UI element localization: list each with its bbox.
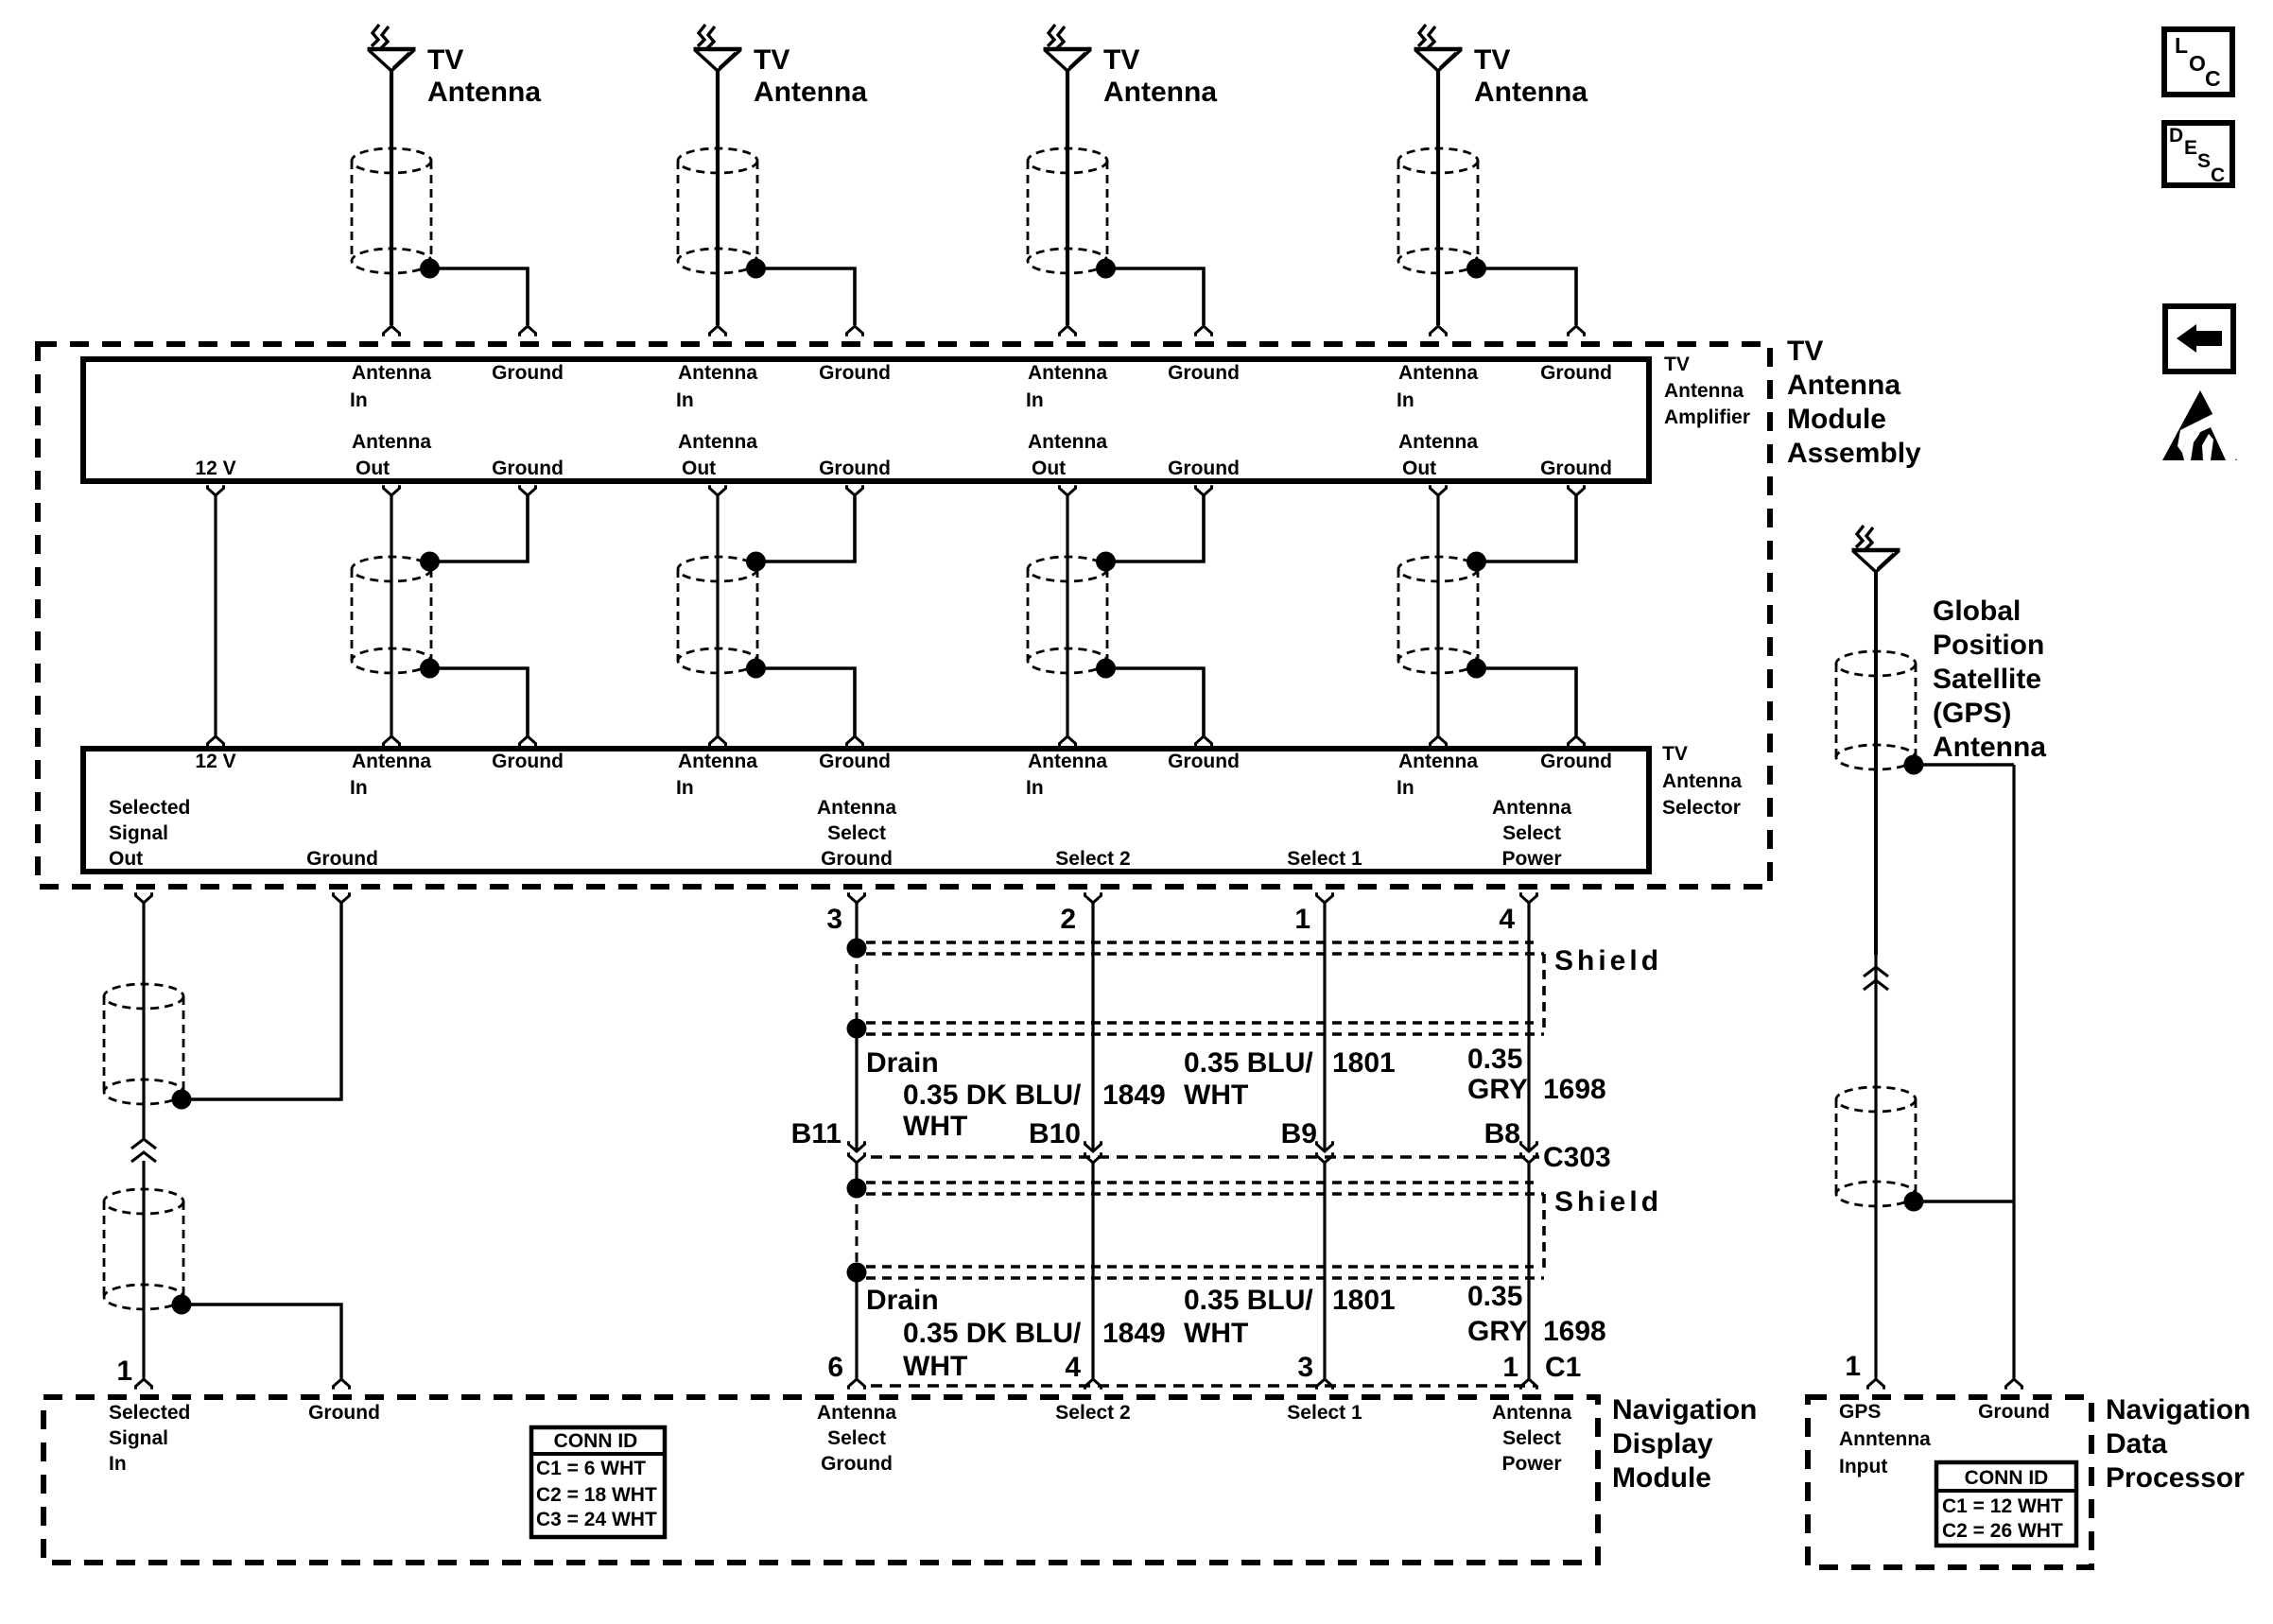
svg-text:TV: TV (427, 44, 463, 76)
svg-text:In: In (109, 1453, 127, 1475)
svg-text:Ground: Ground (819, 458, 891, 479)
svg-text:Antenna: Antenna (1474, 77, 1588, 108)
wire: signal through shield 1 (142, 983, 145, 1138)
svg-text:Antenna: Antenna (678, 362, 757, 384)
GPS shield drain wire to ground (1914, 763, 2014, 767)
12V supply wire (214, 495, 217, 736)
svg-text:Antenna: Antenna (352, 431, 431, 453)
svg-text:Antenna: Antenna (1398, 362, 1478, 384)
svg-text:Ground: Ground (819, 751, 891, 772)
svg-text:Module: Module (1787, 404, 1886, 435)
antenna A1 coax shield (352, 148, 431, 173)
wire: ground to module (182, 1304, 341, 1378)
svg-text:Out: Out (682, 458, 716, 479)
svg-text:Select 2: Select 2 (1055, 1402, 1130, 1424)
back-arrow legend box (2165, 306, 2233, 371)
antenna A2 coax shield (678, 148, 757, 173)
svg-text:0.35: 0.35 (1467, 1281, 1522, 1312)
svg-text:1: 1 (1502, 1352, 1518, 1383)
svg-text:Antenna: Antenna (1028, 362, 1107, 384)
svg-text:B11: B11 (791, 1118, 842, 1149)
coax ch2 shield drain junction lower (746, 659, 766, 679)
svg-text:Select: Select (1502, 822, 1561, 844)
svg-text:2: 2 (1060, 904, 1076, 935)
svg-text:GRY: GRY (1467, 1316, 1528, 1347)
wire: Selected Signal Out upper (142, 903, 145, 983)
coax ch2 shield drain junction upper (746, 552, 766, 572)
svg-text:In: In (676, 777, 694, 799)
coax ch2 ground stub lower (756, 668, 856, 736)
svg-text:WHT: WHT (903, 1351, 967, 1382)
svg-text:Antenna: Antenna (1398, 431, 1478, 453)
GPS coax shield 1 (1836, 651, 1916, 676)
svg-text:Select 1: Select 1 (1287, 848, 1362, 870)
svg-text:Global: Global (1933, 596, 2021, 627)
svg-text:Antenna: Antenna (678, 431, 757, 453)
svg-text:Antenna: Antenna (1492, 1402, 1571, 1424)
svg-text:Antenna: Antenna (1028, 751, 1107, 772)
svg-text:Selected: Selected (109, 797, 190, 819)
svg-text:C303: C303 (1543, 1142, 1611, 1173)
svg-text:WHT: WHT (1184, 1318, 1248, 1349)
TV Antenna Selector box U2 (83, 749, 1649, 872)
Navigation Data Processor boundary (1808, 1397, 2091, 1567)
svg-text:12 V: 12 V (195, 751, 235, 772)
svg-text:Ground: Ground (306, 848, 378, 870)
svg-text:B10: B10 (1029, 1118, 1081, 1149)
coax ch2 shield (678, 557, 757, 581)
svg-text:Antenna: Antenna (352, 751, 431, 772)
svg-text:Data: Data (2106, 1428, 2167, 1460)
antenna A3 coax shield (1028, 148, 1107, 173)
DESC legend box (2164, 123, 2232, 185)
svg-text:3: 3 (826, 904, 842, 935)
svg-text:Assembly: Assembly (1787, 438, 1921, 469)
shield tube upper (dashed) (866, 941, 1534, 944)
TV Antenna Amplifier box U1 (83, 359, 1649, 481)
svg-text:Antenna: Antenna (678, 751, 757, 772)
svg-text:In: In (1397, 389, 1414, 411)
svg-text:L: L (2175, 33, 2188, 58)
ESD warning symbol (2162, 390, 2237, 460)
CONN ID table (module) (531, 1427, 665, 1537)
svg-text:Antenna: Antenna (754, 77, 867, 108)
coax ch1 ground stub lower (430, 668, 529, 736)
svg-text:Amplifier: Amplifier (1664, 406, 1750, 428)
signal coax shield 2 (104, 1189, 183, 1214)
svg-text:In: In (676, 389, 694, 411)
svg-text:In: In (1026, 777, 1044, 799)
svg-text:Anntenna: Anntenna (1839, 1428, 1931, 1450)
svg-text:C: C (2211, 164, 2225, 186)
svg-text:Select: Select (1502, 1427, 1561, 1449)
svg-text:Signal: Signal (109, 1427, 168, 1449)
svg-text:Ground: Ground (1168, 362, 1240, 384)
svg-text:Module: Module (1612, 1462, 1711, 1494)
antenna A2 mast wire (716, 71, 720, 325)
svg-text:Ground: Ground (492, 458, 564, 479)
svg-text:Antenna: Antenna (1398, 751, 1478, 772)
svg-text:Antenna: Antenna (1662, 770, 1742, 792)
svg-text:GRY: GRY (1467, 1074, 1528, 1105)
svg-text:0.35: 0.35 (1467, 1044, 1522, 1075)
antenna A4 coax shield (1398, 148, 1478, 173)
coax ch4 shield drain junction upper (1466, 552, 1486, 572)
wire: ground from selector (182, 903, 341, 1099)
wire: Select 1 selector to C303 (1323, 903, 1326, 1151)
svg-text:Shield: Shield (1554, 1186, 1662, 1218)
svg-text:Selected: Selected (109, 1402, 190, 1424)
svg-text:Antenna: Antenna (1103, 77, 1217, 108)
svg-text:1: 1 (116, 1356, 132, 1387)
svg-text:CONN ID: CONN ID (554, 1430, 638, 1452)
svg-text:C1: C1 (1545, 1352, 1581, 1383)
coax ch3 ground stub lower (1106, 668, 1205, 736)
TV antenna A4 symbol (1418, 25, 1426, 46)
svg-text:Ground: Ground (1168, 751, 1240, 772)
connector C1 line (module) (871, 1384, 1536, 1388)
wire: Antenna Select Power C303 to module (1521, 1152, 1537, 1163)
svg-text:C3 = 24 WHT: C3 = 24 WHT (536, 1509, 657, 1530)
shield drain junction lower-2 (847, 1263, 867, 1283)
GPS coax shield 2 (1836, 1087, 1916, 1112)
svg-text:1849: 1849 (1102, 1318, 1166, 1349)
svg-text:Shield: Shield (1554, 945, 1662, 976)
wire: Antenna Select Ground below C303 (849, 1152, 865, 1163)
TV Antenna Module Assembly boundary (38, 344, 1770, 887)
shield drain junction upper-1 (847, 939, 867, 959)
svg-text:Position: Position (1933, 630, 2044, 661)
svg-text:C2 = 26 WHT: C2 = 26 WHT (1942, 1520, 2063, 1542)
svg-text:In: In (350, 389, 368, 411)
svg-text:In: In (350, 777, 368, 799)
svg-text:Ground: Ground (1978, 1401, 2050, 1423)
wire: GPS ground (2012, 765, 2015, 1378)
svg-text:Out: Out (356, 458, 390, 479)
svg-text:Satellite: Satellite (1933, 664, 2041, 695)
svg-text:Antenna: Antenna (1787, 370, 1900, 401)
svg-text:D: D (2169, 125, 2183, 147)
GPS shield 2 drain junction (1904, 1192, 1924, 1212)
wire: drain dashed segment lower (856, 1188, 859, 1272)
svg-text:Drain: Drain (866, 1047, 939, 1079)
wire: Antenna Select Ground to module (855, 1272, 858, 1378)
antenna A2 shield drain junction (746, 259, 766, 279)
svg-text:Antenna: Antenna (1028, 431, 1107, 453)
svg-text:0.35 BLU/: 0.35 BLU/ (1184, 1285, 1313, 1316)
svg-text:C: C (2205, 66, 2221, 91)
svg-text:Antenna: Antenna (1933, 732, 2046, 763)
svg-text:Antenna: Antenna (427, 77, 541, 108)
wire break symbol (GPS) (1864, 967, 1888, 976)
wire: Select 2 selector to C303 (1091, 903, 1094, 1151)
svg-text:0.35 BLU/: 0.35 BLU/ (1184, 1047, 1313, 1079)
coax ch1 shield (352, 557, 431, 581)
svg-text:S: S (2197, 150, 2211, 172)
svg-text:Selector: Selector (1662, 797, 1741, 819)
svg-text:(GPS): (GPS) (1933, 698, 2011, 729)
svg-text:1698: 1698 (1543, 1316, 1606, 1347)
GPS shield 1 drain junction (1904, 755, 1924, 775)
svg-text:CONN ID: CONN ID (1965, 1467, 2049, 1489)
signal coax shield 1 (104, 984, 183, 1009)
svg-text:B8: B8 (1484, 1118, 1520, 1149)
svg-text:Out: Out (1402, 458, 1436, 479)
GPS antenna mast wire (1874, 572, 1878, 955)
svg-text:In: In (1026, 389, 1044, 411)
svg-text:1849: 1849 (1102, 1080, 1166, 1111)
svg-text:Power: Power (1501, 1453, 1561, 1475)
antenna A3 shield ground wire (1106, 268, 1205, 325)
coax ch2 ground stub upper (756, 495, 856, 561)
svg-text:Ground: Ground (821, 848, 893, 870)
svg-text:1698: 1698 (1543, 1074, 1606, 1105)
coax ch3 shield drain junction lower (1096, 659, 1116, 679)
antenna A1 mast wire (390, 71, 393, 325)
svg-text:6: 6 (827, 1352, 843, 1383)
svg-text:Antenna: Antenna (817, 797, 896, 819)
coax ch4 amplifier-out wire (1436, 495, 1439, 736)
svg-text:Select 2: Select 2 (1055, 848, 1130, 870)
antenna A4 shield drain junction (1466, 259, 1486, 279)
svg-text:Select: Select (827, 1427, 886, 1449)
svg-text:TV: TV (1103, 44, 1139, 76)
antenna A2 shield ground wire (756, 268, 856, 325)
coax ch3 shield drain junction upper (1096, 552, 1116, 572)
wire: Antenna Select Ground to C303 (855, 1028, 858, 1151)
GPS antenna symbol (1856, 526, 1864, 547)
svg-text:Processor: Processor (2106, 1462, 2245, 1494)
wire break symbol (signal) (131, 1139, 156, 1149)
GPS shield 2 drain wire (1914, 1200, 2014, 1203)
svg-text:Signal: Signal (109, 822, 168, 844)
svg-text:WHT: WHT (1184, 1080, 1248, 1111)
svg-text:TV: TV (1474, 44, 1510, 76)
svg-text:Ground: Ground (1540, 362, 1612, 384)
CONN ID table (processor) (1936, 1462, 2076, 1546)
svg-text:Ground: Ground (819, 362, 891, 384)
wire: GPS antenna lead lower (1874, 955, 1877, 1378)
coax ch2 amplifier-out wire (716, 495, 719, 736)
svg-text:Out: Out (109, 848, 143, 870)
coax ch3 shield (1028, 557, 1107, 581)
svg-text:TV: TV (1787, 336, 1823, 367)
svg-text:B9: B9 (1281, 1118, 1317, 1149)
coax ch1 amplifier-out wire (390, 495, 392, 736)
svg-text:4: 4 (1065, 1352, 1081, 1383)
svg-text:TV: TV (754, 44, 789, 76)
wire: signal through shield 2 (142, 1161, 145, 1378)
svg-text:Ground: Ground (308, 1402, 380, 1424)
svg-text:Ground: Ground (492, 362, 564, 384)
shield drain junction upper-2 (847, 1019, 867, 1039)
connector C303 line (871, 1155, 1539, 1159)
coax ch3 ground stub upper (1106, 495, 1205, 561)
antenna A1 shield drain junction (420, 259, 440, 279)
TV antenna A2 symbol (698, 25, 705, 46)
svg-text:O: O (2189, 51, 2206, 76)
wire: Antenna Select Power selector to C303 (1527, 903, 1530, 1151)
svg-text:Display: Display (1612, 1428, 1713, 1460)
svg-text:0.35 DK BLU/: 0.35 DK BLU/ (903, 1318, 1082, 1349)
TV antenna A3 symbol (1048, 25, 1055, 46)
svg-text:E: E (2184, 137, 2197, 159)
svg-text:TV: TV (1664, 354, 1690, 375)
svg-text:C1 = 6 WHT: C1 = 6 WHT (536, 1458, 646, 1479)
svg-text:0.35 DK BLU/: 0.35 DK BLU/ (903, 1080, 1082, 1111)
antenna A1 shield ground wire (430, 268, 529, 325)
coax ch4 shield (1398, 557, 1478, 581)
svg-text:1801: 1801 (1332, 1047, 1396, 1079)
wire: Select 2 C303 to module (1085, 1152, 1102, 1163)
antenna A4 shield ground wire (1477, 268, 1577, 325)
svg-text:Antenna: Antenna (352, 362, 431, 384)
wire: Select 1 C303 to module (1317, 1152, 1333, 1163)
coax ch1 shield drain junction upper (420, 552, 440, 572)
antenna A3 mast wire (1066, 71, 1069, 325)
coax ch1 shield drain junction lower (420, 659, 440, 679)
svg-text:1801: 1801 (1332, 1285, 1396, 1316)
svg-text:Antenna: Antenna (1664, 380, 1744, 402)
wire: Antenna Select Ground upper solid (855, 903, 858, 948)
svg-text:Ground: Ground (1540, 458, 1612, 479)
svg-text:Ground: Ground (821, 1453, 893, 1475)
svg-text:1: 1 (1845, 1351, 1861, 1382)
coax ch3 amplifier-out wire (1066, 495, 1068, 736)
svg-text:Select: Select (827, 822, 886, 844)
coax ch4 ground stub upper (1477, 495, 1577, 561)
svg-text:WHT: WHT (903, 1111, 967, 1142)
shield tube lower (dashed) (866, 1181, 1534, 1184)
coax ch4 shield drain junction lower (1466, 659, 1486, 679)
svg-text:Ground: Ground (492, 751, 564, 772)
svg-text:Antenna: Antenna (817, 1402, 896, 1424)
svg-text:1: 1 (1294, 904, 1310, 935)
svg-text:Power: Power (1501, 848, 1561, 870)
svg-text:Antenna: Antenna (1492, 797, 1571, 819)
shield drain junction lower-1 (847, 1179, 867, 1199)
signal shield 2 drain junction (172, 1295, 192, 1315)
svg-text:Select 1: Select 1 (1287, 1402, 1362, 1424)
svg-text:C2 = 18 WHT: C2 = 18 WHT (536, 1484, 657, 1506)
svg-text:Ground: Ground (1540, 751, 1612, 772)
svg-text:C1 = 12 WHT: C1 = 12 WHT (1942, 1495, 2063, 1517)
wire: drain dashed segment upper (856, 948, 859, 1028)
Navigation Display Module boundary (43, 1397, 1598, 1563)
LOC legend box (2164, 29, 2232, 95)
svg-text:Drain: Drain (866, 1285, 939, 1316)
signal shield 1 drain junction (172, 1090, 192, 1110)
antenna A3 shield drain junction (1096, 259, 1116, 279)
svg-text:3: 3 (1297, 1352, 1313, 1383)
coax ch4 ground stub lower (1477, 668, 1577, 736)
TV antenna A1 symbol (372, 25, 379, 46)
antenna A4 mast wire (1436, 71, 1440, 325)
svg-text:TV: TV (1662, 743, 1688, 765)
coax ch1 ground stub upper (430, 495, 529, 561)
svg-text:GPS: GPS (1839, 1401, 1881, 1423)
svg-text:Input: Input (1839, 1456, 1887, 1477)
svg-text:Navigation: Navigation (1612, 1394, 1757, 1425)
svg-text:In: In (1397, 777, 1414, 799)
svg-text:Navigation: Navigation (2106, 1394, 2250, 1425)
svg-text:Ground: Ground (1168, 458, 1240, 479)
svg-text:12 V: 12 V (195, 458, 235, 479)
svg-text:Out: Out (1032, 458, 1066, 479)
svg-text:4: 4 (1499, 904, 1515, 935)
